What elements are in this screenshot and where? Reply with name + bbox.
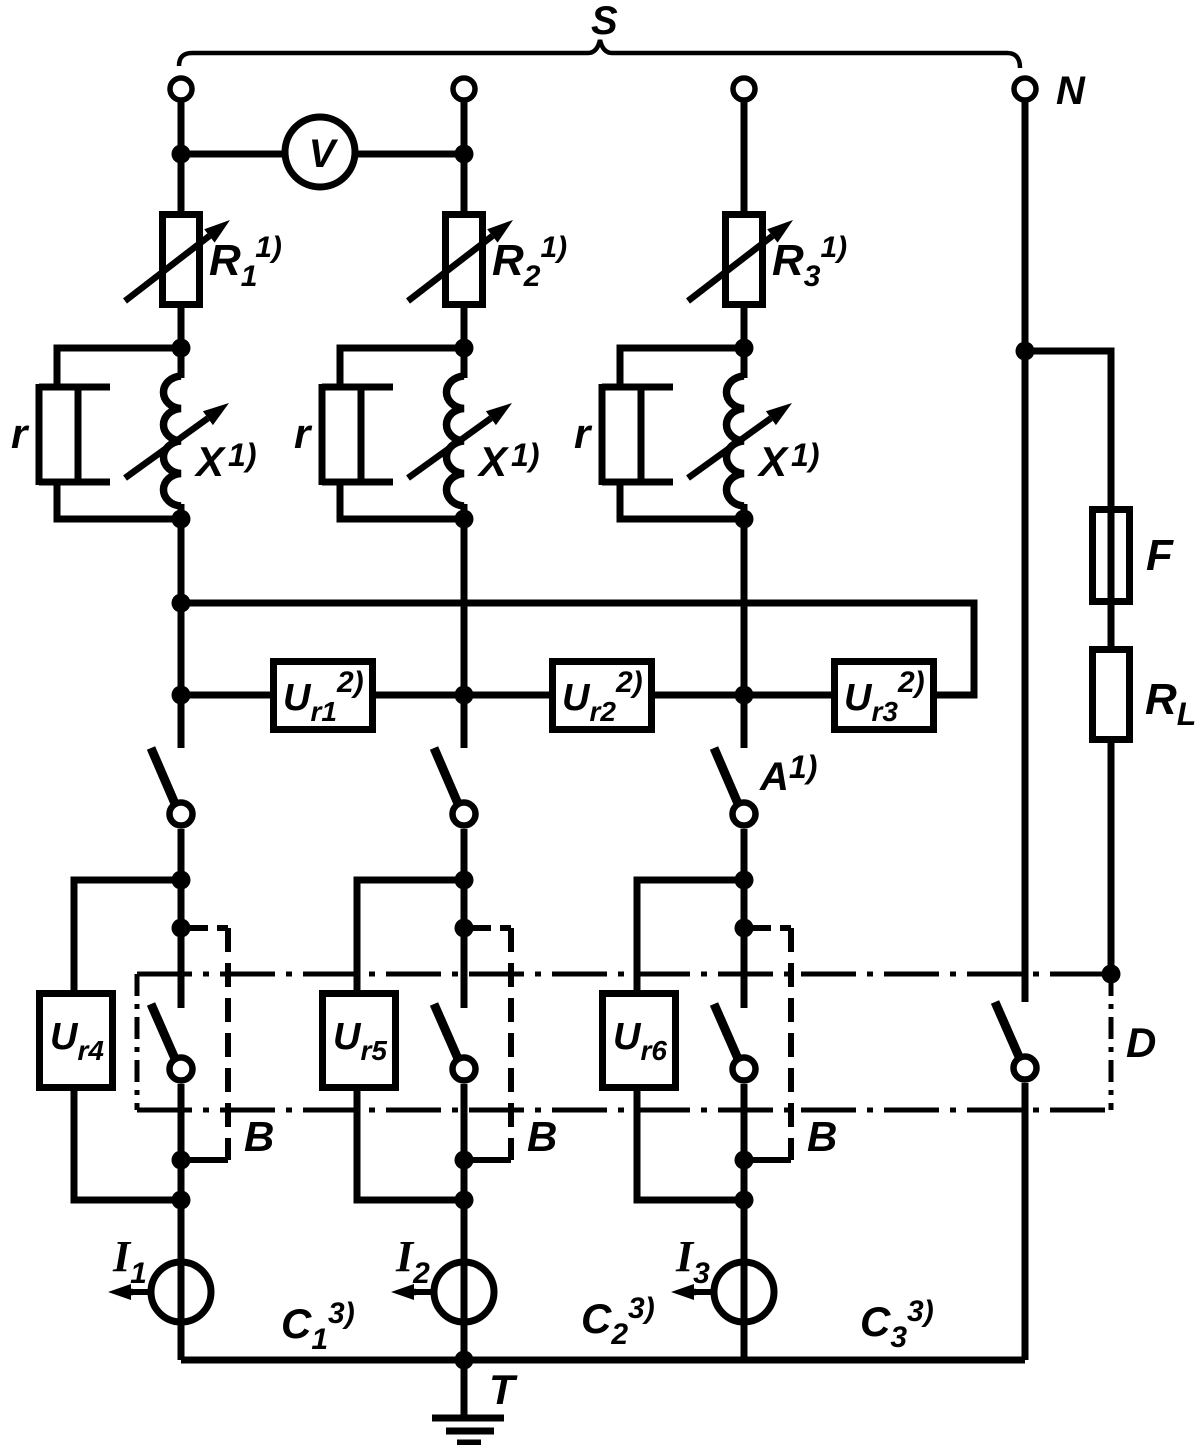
node L3/U_r row	[735, 686, 754, 705]
svg-text:F: F	[1146, 531, 1174, 580]
node r||X bottom	[455, 510, 474, 529]
node U_r return pole 3	[735, 1191, 754, 1210]
wire inductor bottom stub	[178, 504, 185, 519]
resistor U_r1 2)	[274, 662, 373, 730]
wire R to r||X node	[178, 308, 185, 348]
resistor R3 (variable)	[688, 215, 793, 305]
svg-text:S: S	[591, 0, 618, 43]
resistor U_r4	[40, 994, 113, 1088]
node bracket top pole 2	[455, 919, 474, 938]
wire L3 to U_r3	[744, 692, 831, 699]
switch B pole 3	[714, 1004, 756, 1081]
wire switch A to B pole 3	[741, 829, 748, 1008]
node L2/U_r row	[455, 686, 474, 705]
switch A pole 1	[151, 748, 193, 826]
resistor R1 (variable)	[125, 215, 230, 305]
svg-text:B: B	[244, 1113, 274, 1160]
resistor U_r3 2)	[835, 662, 934, 730]
wire r branch top	[340, 348, 464, 387]
wire switch A to B pole 2	[461, 829, 468, 1008]
wire bottom bus	[181, 1357, 1025, 1364]
node RL/linkage	[1102, 965, 1121, 984]
linkage frame bottom (dash-dot)	[137, 1108, 1111, 1113]
switch B pole 2	[434, 1004, 476, 1081]
wire L3 down to A switch	[741, 519, 748, 748]
wire L1 terminal to R1	[178, 100, 185, 211]
wire L2 to U_r2	[464, 692, 549, 699]
wire inductor top stub	[741, 348, 748, 378]
wire U_r4 return	[74, 1088, 181, 1200]
node L1/bus	[172, 594, 191, 613]
brace S over supply terminals	[179, 40, 1020, 68]
wire r branch top	[620, 348, 744, 387]
wire branch to U_r5	[357, 880, 464, 993]
wire inductor bottom stub	[461, 504, 468, 519]
linkage bracket switch B pole 3	[753, 928, 791, 1160]
node B bracket bottom pole 1	[172, 1151, 191, 1170]
node L1/U_r row	[172, 686, 191, 705]
current transformer I2	[391, 1262, 494, 1322]
wire voltmeter row	[181, 151, 464, 158]
node r||X bottom	[172, 510, 191, 529]
inductor X (variable)	[688, 376, 792, 506]
resistor R2 (variable)	[408, 215, 513, 305]
wire N terminal down	[1022, 100, 1029, 1002]
wire L2 down to A switch	[461, 519, 468, 748]
svg-text:T: T	[489, 1366, 518, 1413]
terminal L3	[733, 78, 755, 100]
wire branch to U_r6	[637, 880, 744, 993]
linkage bracket switch B pole 1	[190, 928, 228, 1160]
wire N branch to fuse	[1025, 351, 1111, 646]
resistor U_r5	[323, 994, 396, 1088]
terminal L2	[453, 78, 475, 100]
svg-text:r: r	[11, 410, 30, 457]
node bracket top pole 1	[172, 919, 191, 938]
resistor U_r6	[603, 994, 676, 1088]
wire U_r5 return	[357, 1088, 464, 1200]
wire switch B down pole 3	[741, 1084, 748, 1360]
earth T	[432, 1360, 504, 1443]
node branch U_r5	[455, 871, 474, 890]
wire U_r1 row left	[181, 692, 270, 699]
resistor r	[322, 384, 393, 485]
node L2/voltmeter	[455, 145, 474, 164]
svg-text:r: r	[574, 410, 593, 457]
terminal L1	[170, 78, 192, 100]
wire inductor top stub	[178, 348, 185, 378]
wire branch to U_r4	[74, 880, 181, 993]
node bracket top pole 3	[735, 919, 754, 938]
node B bracket bottom pole 3	[735, 1151, 754, 1170]
wire RL to linkage	[1108, 743, 1115, 974]
current transformer I3	[671, 1262, 774, 1322]
svg-text:B: B	[527, 1113, 557, 1160]
node N branch	[1016, 342, 1035, 361]
node r||X top	[735, 339, 754, 358]
linkage frame top (dash-dot)	[137, 972, 1111, 977]
linkage frame left (dash-dot)	[135, 974, 140, 1110]
voltmeter V	[285, 117, 355, 187]
wire U_r2 to L3	[655, 692, 744, 699]
node r||X bottom	[735, 510, 754, 529]
resistor r	[39, 384, 110, 485]
svg-text:B: B	[807, 1113, 837, 1160]
wire r branch bottom	[620, 482, 744, 519]
node r||X top	[455, 339, 474, 358]
switch D	[995, 1002, 1037, 1080]
wire L1 to switch A	[178, 695, 185, 748]
node earth	[455, 1351, 474, 1370]
resistor RL	[1093, 650, 1130, 740]
wire r branch bottom	[57, 482, 181, 519]
node branch U_r4	[172, 871, 191, 890]
svg-text:N: N	[1056, 69, 1086, 113]
switch A pole 3	[714, 748, 756, 826]
node L1/voltmeter	[172, 145, 191, 164]
wire U_r1 to L2	[376, 692, 464, 699]
wire R to r||X node	[461, 308, 468, 348]
fuse F	[1093, 510, 1130, 602]
wire upper bus loop	[181, 603, 974, 695]
wire R to r||X node	[741, 308, 748, 348]
node branch U_r6	[735, 871, 754, 890]
node U_r return pole 1	[172, 1191, 191, 1210]
node U_r return pole 2	[455, 1191, 474, 1210]
wire U_r6 return	[637, 1088, 744, 1200]
linkage bracket switch B pole 2	[473, 928, 511, 1160]
switch B pole 1	[151, 1004, 193, 1081]
current transformer I1	[108, 1262, 211, 1322]
linkage frame right (dash-dot)	[1109, 974, 1114, 1110]
wire L2 terminal to R2	[461, 100, 468, 211]
wire switch B down pole 2	[461, 1084, 468, 1360]
switch A pole 2	[434, 748, 476, 826]
resistor r	[602, 384, 673, 485]
wire switch D down	[1022, 1083, 1029, 1360]
svg-text:D: D	[1126, 1019, 1156, 1066]
wire r branch top	[57, 348, 181, 387]
svg-text:V: V	[309, 132, 339, 176]
wire L3 terminal to R3	[741, 100, 748, 211]
svg-text:r: r	[294, 410, 313, 457]
wire r branch bottom	[340, 482, 464, 519]
wire switch B down pole 1	[178, 1084, 185, 1360]
inductor X (variable)	[125, 376, 229, 506]
terminal N	[1014, 78, 1036, 100]
wire inductor top stub	[461, 348, 468, 378]
node r||X top	[172, 339, 191, 358]
wire inductor bottom stub	[741, 504, 748, 519]
wire L1 down to U_r row	[178, 519, 185, 695]
inductor X (variable)	[408, 376, 512, 506]
node B bracket bottom pole 2	[455, 1151, 474, 1170]
resistor U_r2 2)	[553, 662, 652, 730]
wire switch A to B pole 1	[178, 829, 185, 1008]
